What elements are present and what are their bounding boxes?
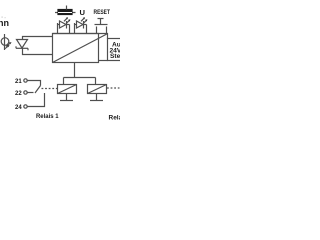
mechanical link K1 to contact (dashed)	[42, 88, 58, 90]
main converter box U1	[53, 34, 99, 63]
relay coil K2	[88, 85, 107, 94]
contact blade	[35, 86, 41, 94]
LED V2	[75, 17, 88, 33]
fuse F1	[55, 12, 76, 14]
terminal 21	[15, 79, 22, 85]
wire splitter	[64, 77, 96, 79]
supply box (24V)	[108, 39, 122, 61]
svg-text:Relais 2: Relais 2	[109, 115, 121, 122]
svg-text:Steu: Steu	[110, 53, 120, 60]
diagonal of U1	[53, 34, 107, 63]
svg-text:nn: nn	[0, 18, 9, 28]
svg-text:Relais 1: Relais 1	[36, 113, 59, 120]
wire feed to relays	[74, 63, 76, 78]
terminal 22	[15, 91, 22, 97]
label Relais 1	[36, 113, 59, 120]
label RESET	[94, 9, 111, 16]
ground for K2	[96, 94, 98, 101]
svg-text:21: 21	[15, 79, 22, 85]
lamp P1 (input indicator circle)	[4, 34, 6, 50]
arrow on lamp	[5, 43, 11, 49]
svg-text:U: U	[80, 8, 86, 17]
terminal 24	[15, 105, 22, 111]
svg-text:24: 24	[15, 105, 22, 111]
wire 22	[27, 92, 33, 94]
LED V1	[58, 17, 71, 33]
wire top input	[23, 37, 53, 40]
wire 24 up to NO contact	[27, 93, 44, 107]
zener diode D1	[17, 40, 28, 49]
ground for K1	[66, 94, 68, 101]
label U	[80, 8, 86, 17]
wire drop right	[95, 78, 97, 86]
wire bottom input	[23, 48, 53, 54]
svg-text:RESET: RESET	[94, 9, 111, 16]
top bus wire	[53, 34, 108, 39]
node label nn (cropped word)	[0, 17, 9, 29]
reset push-button S1	[95, 19, 108, 34]
wire box link bottom	[99, 60, 108, 62]
svg-text:22: 22	[15, 91, 22, 97]
wire drop left	[63, 78, 65, 86]
wire 21 to pivot	[27, 81, 40, 86]
label Relais 2 (cropped)	[109, 115, 134, 122]
mechanical link K2 (dashed)	[107, 87, 120, 89]
relay coil K1	[58, 85, 77, 94]
